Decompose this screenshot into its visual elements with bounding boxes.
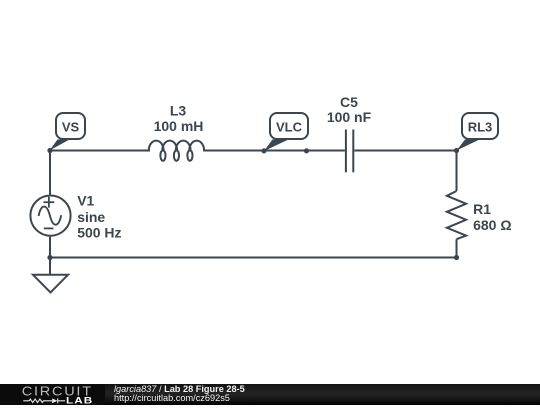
V1 minus sign: [44, 227, 54, 229]
V1 plus sign: [44, 197, 55, 208]
V1 sine symbol: [39, 207, 62, 225]
svg-text:V1: V1: [77, 193, 94, 209]
ground symbol: [33, 275, 68, 293]
junction node bottom right: [454, 255, 459, 260]
probe RL3 box: [462, 113, 498, 139]
footer attribution text: [114, 384, 414, 404]
svg-text:sine: sine: [77, 209, 105, 225]
svg-text:100 nF: 100 nF: [327, 109, 372, 125]
capacitor C5 plates: [346, 130, 353, 173]
CircuitLab logo: [0, 384, 105, 405]
svg-text:LAB: LAB: [66, 396, 93, 405]
probe VLC box: [270, 113, 308, 139]
wire left vertical bottom: [49, 237, 51, 275]
svg-text:C5: C5: [340, 94, 358, 110]
probe VS tail: [50, 140, 70, 151]
probe RL3 tail: [457, 140, 480, 151]
probe VLC tail: [264, 140, 289, 152]
wire inductor to capacitor: [205, 150, 345, 152]
junction node at VS: [47, 148, 52, 153]
junction node left of capacitor: [304, 148, 309, 153]
junction node at VLC: [261, 148, 266, 153]
svg-text:500 Hz: 500 Hz: [77, 225, 121, 241]
resistor R1 zigzag: [447, 191, 466, 239]
logo diode: [52, 398, 57, 403]
junction node bottom left: [47, 255, 52, 260]
logo resistor zigzag: [23, 399, 52, 402]
svg-text:RL3: RL3: [468, 120, 493, 135]
inductor L3: [149, 141, 207, 161]
wire top-left segment: [50, 150, 150, 152]
wire right vertical bottom: [456, 239, 458, 257]
junction node at RL3 corner: [454, 148, 459, 153]
voltage source V1 circle: [30, 196, 70, 236]
svg-text:680 Ω: 680 Ω: [473, 217, 511, 233]
wire left vertical top: [49, 151, 51, 195]
svg-text:100 mH: 100 mH: [154, 118, 204, 134]
svg-text:R1: R1: [473, 201, 491, 217]
wire bottom: [50, 257, 457, 259]
svg-text:VLC: VLC: [276, 120, 303, 135]
probe VS box: [56, 113, 85, 139]
svg-text:VS: VS: [62, 120, 80, 135]
svg-text:L3: L3: [170, 103, 187, 119]
wire capacitor to right corner: [354, 150, 456, 152]
wire right vertical top: [456, 151, 458, 192]
footer bar: [0, 384, 540, 405]
